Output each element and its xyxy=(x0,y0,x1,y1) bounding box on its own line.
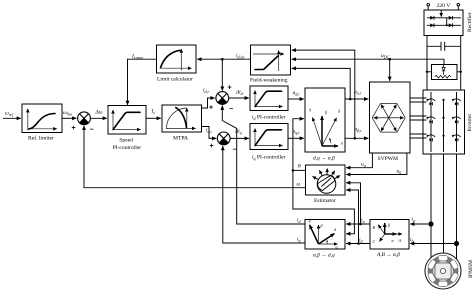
svg-text:id PI-controller: id PI-controller xyxy=(252,115,286,121)
svg-text:SVPWM: SVPWM xyxy=(378,156,399,162)
svg-text:Estimator: Estimator xyxy=(314,198,336,204)
svg-text:θ: θ xyxy=(329,137,331,142)
svg-text:iq PI-controller: iq PI-controller xyxy=(252,155,286,161)
svg-text:id,fw: id,fw xyxy=(236,53,245,60)
svg-text:Inverter: Inverter xyxy=(467,114,473,132)
svg-text:Limit calculator: Limit calculator xyxy=(157,77,193,83)
svg-text:iq,r: iq,r xyxy=(206,128,213,135)
svg-text:PI-controller: PI-controller xyxy=(113,145,142,151)
svg-text:uβ: uβ xyxy=(397,169,402,175)
svg-text:A,B → α,β: A,B → α,β xyxy=(376,252,400,258)
svg-text:β: β xyxy=(387,223,390,228)
svg-text:ωlim: ωlim xyxy=(63,110,72,116)
svg-text:iq: iq xyxy=(297,237,301,243)
svg-text:ωref: ωref xyxy=(5,111,14,117)
svg-text:q: q xyxy=(309,218,311,223)
svg-text:Rectifier: Rectifier xyxy=(466,12,473,32)
svg-text:id,r: id,r xyxy=(203,88,210,95)
svg-text:d,q → α,β: d,q → α,β xyxy=(313,156,335,162)
svg-text:θ: θ xyxy=(326,239,328,244)
svg-text:Is: Is xyxy=(151,109,156,115)
svg-text:+: + xyxy=(72,125,76,132)
svg-text:ω: ω xyxy=(297,182,301,188)
svg-text:q: q xyxy=(309,107,311,112)
svg-text:−: − xyxy=(233,147,237,154)
svg-text:uDC: uDC xyxy=(381,53,390,59)
svg-text:Field-weakening: Field-weakening xyxy=(250,78,288,84)
svg-text:+: + xyxy=(210,143,214,150)
svg-text:Is,max: Is,max xyxy=(131,54,143,61)
svg-text:+: + xyxy=(209,105,213,112)
svg-text:ia: ia xyxy=(412,217,416,223)
svg-text:θ: θ xyxy=(298,164,301,170)
svg-text:+: + xyxy=(228,85,232,92)
svg-text:MTPA: MTPA xyxy=(173,136,188,142)
svg-text:β: β xyxy=(320,223,323,228)
svg-text:Δiq: Δiq xyxy=(234,129,242,135)
svg-text:Speed: Speed xyxy=(119,138,133,144)
svg-text:C: C xyxy=(373,239,376,244)
svg-text:Ref. limiter: Ref. limiter xyxy=(28,135,54,142)
svg-text:−: − xyxy=(90,127,94,134)
svg-text:220 V: 220 V xyxy=(437,3,451,9)
svg-text:A: A xyxy=(398,238,402,243)
svg-text:β: β xyxy=(324,110,327,115)
svg-text:IPMSM: IPMSM xyxy=(468,260,474,278)
svg-text:α,β → d,q: α,β → d,q xyxy=(313,253,335,259)
svg-text:−: − xyxy=(229,106,233,113)
svg-text:iβ: iβ xyxy=(359,238,363,244)
svg-text:ib: ib xyxy=(410,237,414,243)
svg-text:Δω: Δω xyxy=(95,110,103,116)
svg-text:Δid: Δid xyxy=(235,90,244,96)
